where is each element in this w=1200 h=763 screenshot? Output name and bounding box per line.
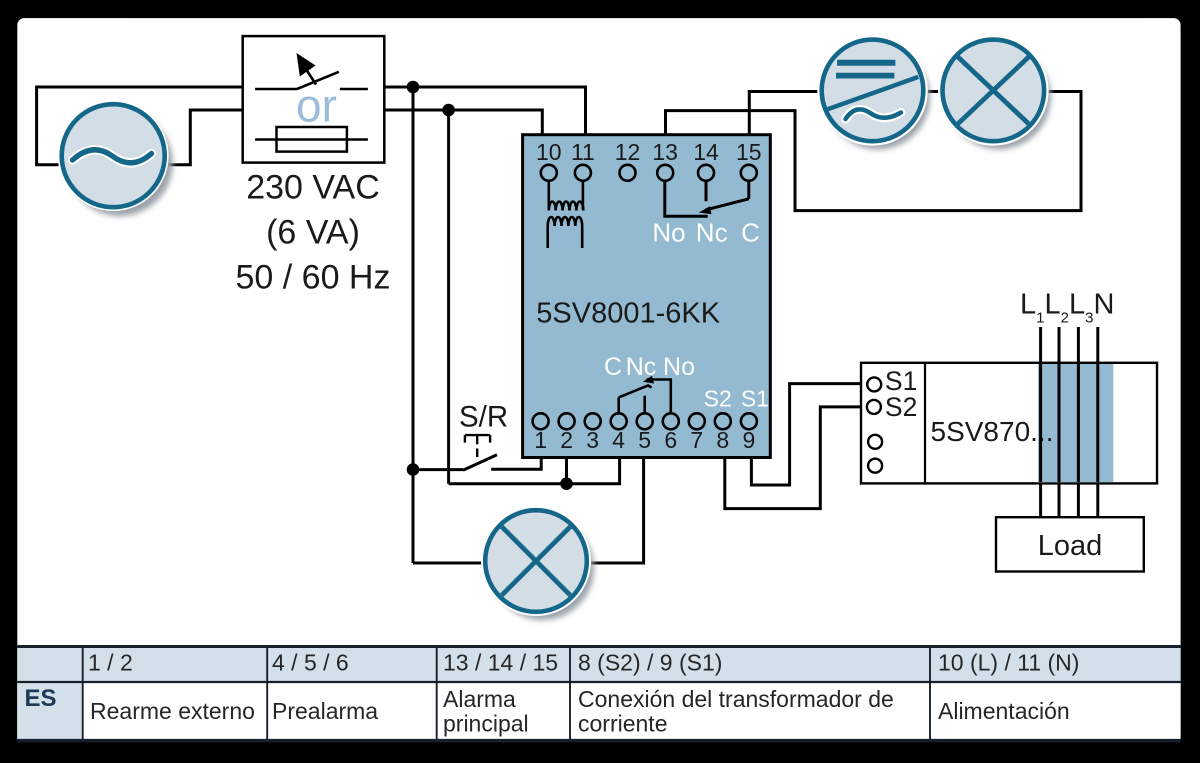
- svg-text:S1: S1: [741, 386, 769, 412]
- svg-text:No: No: [652, 217, 685, 247]
- svg-text:Rearme externo: Rearme externo: [90, 698, 255, 724]
- svg-text:50 / 60 Hz: 50 / 60 Hz: [236, 258, 391, 296]
- svg-text:4: 4: [612, 427, 625, 453]
- svg-text:C: C: [741, 217, 760, 247]
- svg-text:Alarma: Alarma: [443, 686, 516, 712]
- svg-text:14: 14: [693, 139, 719, 165]
- svg-text:C: C: [604, 353, 622, 381]
- svg-text:5SV870...: 5SV870...: [931, 416, 1054, 447]
- svg-text:13 / 14 / 15: 13 / 14 / 15: [443, 650, 558, 676]
- svg-text:8 (S2) / 9 (S1): 8 (S2) / 9 (S1): [578, 650, 722, 676]
- svg-text:13: 13: [652, 139, 678, 165]
- svg-text:corriente: corriente: [578, 711, 667, 737]
- svg-text:9: 9: [743, 427, 756, 453]
- svg-text:No: No: [663, 353, 695, 381]
- svg-text:4 / 5 / 6: 4 / 5 / 6: [272, 650, 349, 676]
- svg-text:12: 12: [615, 139, 641, 165]
- svg-text:10: 10: [536, 139, 562, 165]
- svg-text:6: 6: [664, 427, 677, 453]
- svg-text:Prealarma: Prealarma: [272, 698, 378, 724]
- svg-text:10 (L) / 11 (N): 10 (L) / 11 (N): [938, 650, 1079, 676]
- svg-text:Nc: Nc: [696, 217, 728, 247]
- svg-text:8: 8: [716, 427, 729, 453]
- svg-text:or: or: [296, 80, 337, 132]
- svg-text:2: 2: [560, 427, 573, 453]
- svg-text:7: 7: [690, 427, 703, 453]
- svg-text:1 / 2: 1 / 2: [88, 650, 133, 676]
- svg-text:(6 VA): (6 VA): [266, 214, 360, 252]
- svg-text:230 VAC: 230 VAC: [246, 169, 380, 207]
- svg-text:5SV8001-6KK: 5SV8001-6KK: [536, 298, 720, 330]
- svg-text:ES: ES: [25, 685, 57, 712]
- svg-text:principal: principal: [443, 711, 529, 737]
- svg-text:11: 11: [571, 139, 595, 165]
- svg-text:15: 15: [736, 139, 762, 165]
- svg-text:5: 5: [638, 427, 651, 453]
- svg-text:Conexión del transformador de: Conexión del transformador de: [578, 686, 894, 712]
- svg-text:Alimentación: Alimentación: [938, 698, 1070, 724]
- svg-text:S/R: S/R: [459, 401, 508, 434]
- svg-text:3: 3: [586, 427, 599, 453]
- svg-text:1: 1: [534, 427, 547, 453]
- svg-text:S2: S2: [704, 386, 732, 412]
- svg-text:S2: S2: [885, 392, 917, 422]
- svg-text:Load: Load: [1038, 530, 1103, 562]
